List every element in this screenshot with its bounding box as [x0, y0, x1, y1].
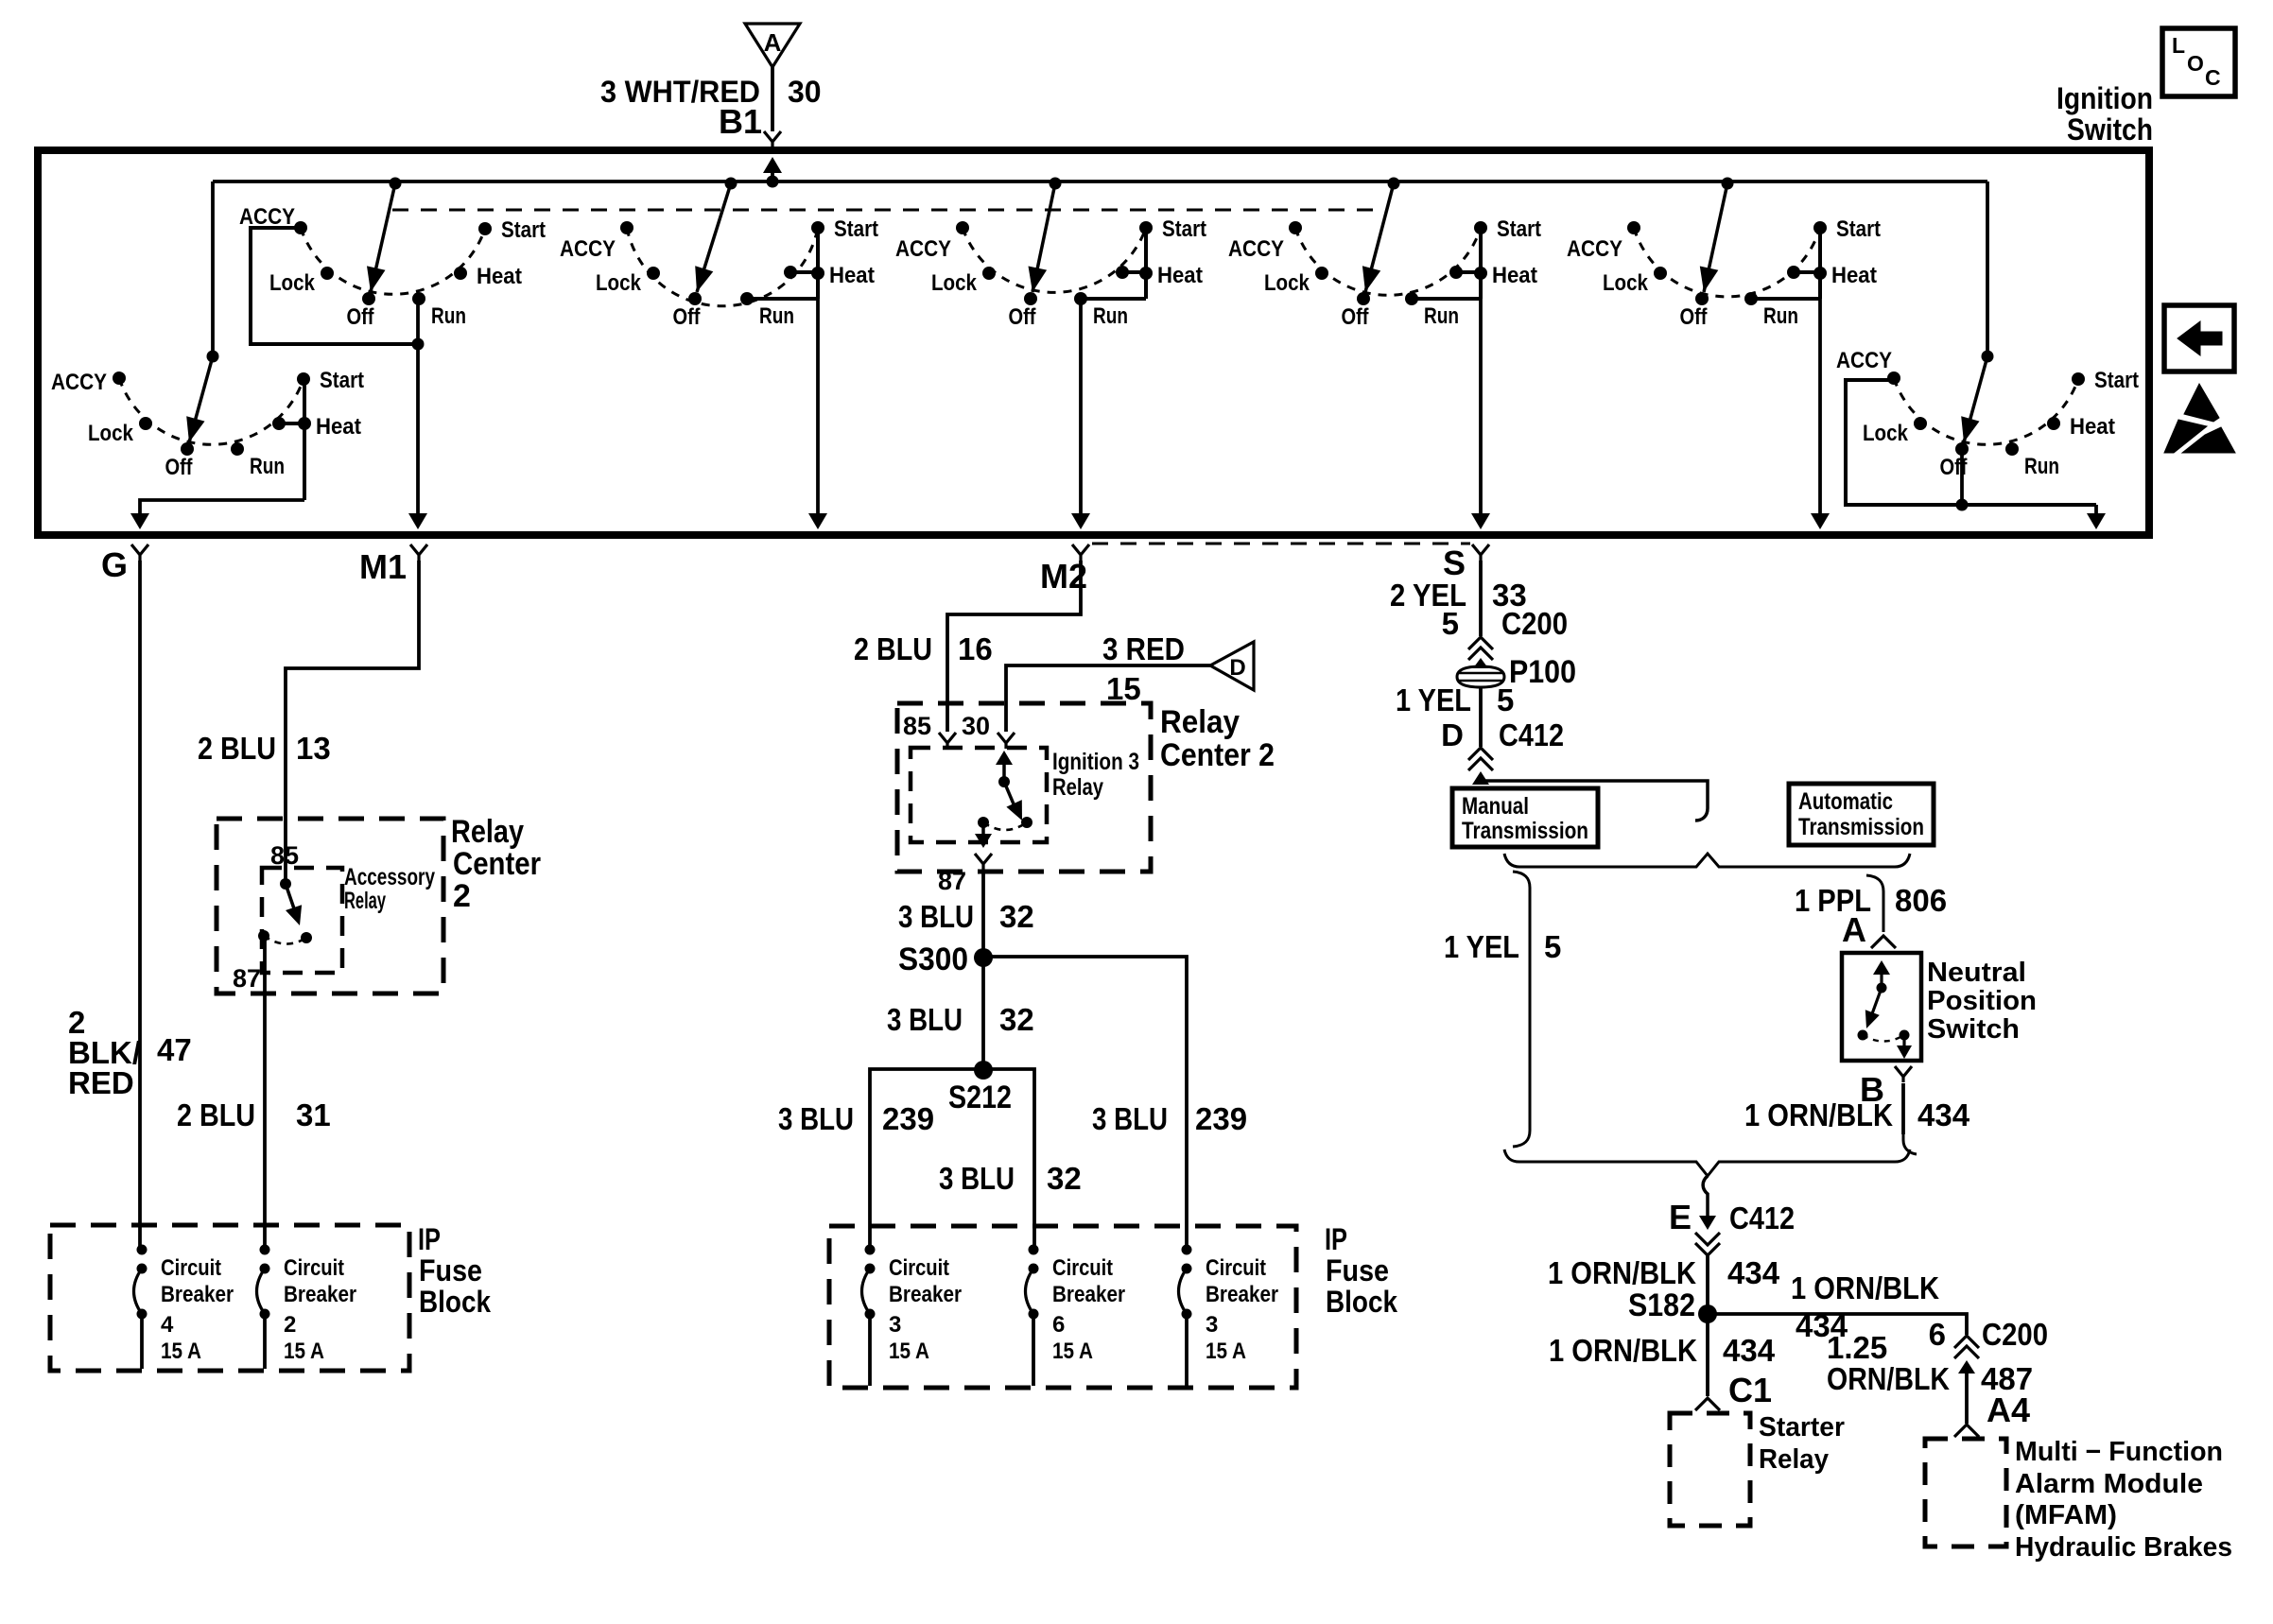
wire 1 YEL 5 from P100 to C412	[1479, 687, 1483, 747]
ignition 3 relay output contact	[978, 817, 989, 828]
svg-text:Lock: Lock	[269, 270, 316, 296]
svg-text:Heat: Heat	[1492, 263, 1537, 288]
wafer 1 Run contact wire to M1	[416, 299, 420, 517]
svg-text:ACCY: ACCY	[895, 236, 951, 262]
internal feed bus wire	[213, 180, 1987, 183]
svg-text:47: 47	[157, 1032, 192, 1067]
terminal S connector fork	[1472, 544, 1489, 561]
wire 2 BLU 13 from M1 to accessory relay	[286, 561, 419, 884]
terminal B1 connector fork	[764, 131, 781, 147]
ignition 3 relay contact throw dashed arc	[983, 822, 1027, 830]
wire arrow into C200	[1473, 658, 1488, 668]
svg-text:3 BLU: 3 BLU	[1092, 1101, 1168, 1136]
circuit breaker 3 15A (right)	[1182, 1245, 1192, 1255]
svg-text:87: 87	[938, 867, 966, 895]
svg-text:Relay: Relay	[1052, 774, 1103, 801]
svg-text:Lock: Lock	[1603, 270, 1649, 296]
wire 2 BLU 16 from M2 to ignition 3 relay 85	[947, 561, 1081, 732]
svg-text:O: O	[2187, 51, 2204, 76]
relay center 2 dashed box (accessory relay)	[217, 819, 443, 993]
svg-text:Lock: Lock	[596, 270, 642, 296]
svg-text:Relay: Relay	[451, 814, 524, 850]
connector C412 pin E	[1695, 1233, 1720, 1245]
wire 2 BLU 31 from accessory relay 87 to IP fuse block	[263, 936, 267, 1250]
svg-text:Circuit: Circuit	[1052, 1255, 1113, 1281]
svg-text:3: 3	[889, 1312, 901, 1338]
svg-text:Fuse: Fuse	[419, 1253, 482, 1287]
svg-text:Circuit: Circuit	[1206, 1255, 1266, 1281]
connector C200 pin 5	[1468, 637, 1493, 649]
svg-text:5: 5	[1544, 929, 1561, 964]
svg-text:239: 239	[882, 1101, 934, 1136]
wire 3 BLU 239 from S212 to circuit breaker 3 (left)	[870, 1069, 983, 1250]
svg-text:Block: Block	[419, 1285, 491, 1319]
svg-text:ACCY: ACCY	[239, 204, 295, 230]
svg-text:31: 31	[296, 1097, 331, 1132]
svg-text:Lock: Lock	[1863, 421, 1909, 446]
svg-text:Breaker: Breaker	[1206, 1282, 1278, 1307]
wafer 3 Run output wire to M2	[1079, 299, 1083, 517]
svg-text:Run: Run	[1763, 303, 1798, 329]
circuit breaker 4 15A	[137, 1245, 147, 1255]
svg-text:3 BLU: 3 BLU	[898, 899, 974, 934]
ESD sensitive device symbol	[2184, 384, 2219, 422]
svg-text:1 ORN/BLK: 1 ORN/BLK	[1791, 1270, 1939, 1305]
svg-text:Neutral: Neutral	[1927, 958, 2026, 988]
svg-text:6: 6	[1052, 1312, 1065, 1338]
svg-text:Run: Run	[2024, 454, 2059, 479]
svg-text:Heat: Heat	[1157, 263, 1203, 288]
ignition 3 relay output arrow to 87	[981, 822, 985, 836]
IP fuse block dashed box (left)	[50, 1225, 409, 1371]
svg-text:Heat: Heat	[316, 414, 361, 440]
neutral position switch throw dashed arc	[1863, 1035, 1904, 1042]
svg-text:B1: B1	[719, 102, 762, 141]
svg-text:15 A: 15 A	[1052, 1339, 1093, 1364]
junction dot B1 on bus	[767, 176, 779, 188]
connector C200 pin 6	[1954, 1336, 1979, 1348]
svg-text:C1: C1	[1728, 1371, 1772, 1409]
svg-text:13: 13	[296, 731, 331, 766]
terminal M1 connector fork	[410, 544, 427, 561]
svg-text:Run: Run	[759, 303, 794, 329]
wafer 2 output wire to case terminal	[816, 299, 820, 517]
svg-text:G: G	[101, 545, 128, 584]
svg-text:4: 4	[161, 1312, 174, 1338]
svg-text:15 A: 15 A	[1206, 1339, 1246, 1364]
wire 3 WHT/RED 30 from triangle A to terminal B1	[771, 67, 774, 131]
accessory relay normally-open contact	[301, 932, 312, 943]
svg-text:ACCY: ACCY	[1567, 236, 1622, 262]
svg-text:3 BLU: 3 BLU	[887, 1002, 963, 1037]
svg-text:RED: RED	[68, 1065, 134, 1100]
svg-text:Center: Center	[453, 846, 541, 882]
svg-text:Fuse: Fuse	[1326, 1253, 1389, 1287]
circuit breaker 3 15A (left)	[865, 1245, 876, 1255]
svg-text:Off: Off	[165, 455, 194, 480]
relay center 2 dashed box (ignition 3 relay)	[897, 703, 1151, 872]
svg-text:D: D	[1229, 655, 1245, 681]
svg-text:5: 5	[1442, 606, 1459, 641]
svg-text:A4: A4	[1987, 1391, 2030, 1429]
svg-text:Circuit: Circuit	[889, 1255, 949, 1281]
manual transmission wire 1 YEL 5 bracket	[1513, 872, 1530, 1147]
neutral position switch terminal B fork	[1895, 1066, 1912, 1082]
ignition switch wafer 2 contact dots	[620, 221, 633, 234]
wire from C412 to transmission option split	[1481, 781, 1708, 821]
connector triangle D to sheet location	[1210, 642, 1254, 690]
svg-text:1 ORN/BLK: 1 ORN/BLK	[1549, 1333, 1697, 1368]
svg-text:Center 2: Center 2	[1160, 737, 1275, 773]
neutral position switch armature	[1873, 960, 1890, 975]
wire arrow into C412	[1472, 771, 1489, 785]
svg-text:L: L	[2172, 33, 2185, 58]
svg-text:ACCY: ACCY	[51, 370, 107, 395]
svg-text:434: 434	[1917, 1097, 1970, 1132]
wafer 3 Start-Heat-Run tie wire	[1144, 228, 1148, 299]
svg-text:Off: Off	[1680, 304, 1709, 330]
connector triangle A to sheet location	[745, 24, 800, 67]
wafer 7 junction dot on loop	[1956, 499, 1969, 511]
svg-text:Start: Start	[501, 217, 546, 243]
svg-text:Starter: Starter	[1759, 1412, 1845, 1443]
svg-text:Accessory: Accessory	[344, 864, 435, 890]
svg-text:1 YEL: 1 YEL	[1396, 682, 1471, 717]
svg-text:Heat: Heat	[829, 263, 875, 288]
svg-text:239: 239	[1195, 1101, 1247, 1136]
ignition switch wafer 2 contact arc (dashed)	[627, 228, 818, 306]
neutral position switch output arrow	[1902, 1035, 1905, 1045]
wire 3 BLU 32 from S300 to S212	[981, 958, 985, 1070]
svg-text:Circuit: Circuit	[284, 1255, 344, 1281]
svg-text:Hydraulic Brakes: Hydraulic Brakes	[2015, 1532, 2232, 1563]
svg-text:3 RED: 3 RED	[1102, 631, 1185, 666]
splice S212	[974, 1061, 993, 1080]
svg-text:434: 434	[1723, 1333, 1776, 1368]
back arrow legend box	[2164, 305, 2234, 371]
neutral position switch contacts	[1858, 1030, 1868, 1041]
circuit breaker 2 15A	[260, 1245, 270, 1255]
svg-text:3 BLU: 3 BLU	[778, 1101, 854, 1136]
ignition switch wafer 6 contact dots	[113, 371, 126, 385]
wire 2 BLK/RED 47 from G to IP fuse block	[138, 561, 142, 1250]
svg-text:E: E	[1669, 1198, 1692, 1236]
ignition switch wafer 7 contact dots	[1887, 371, 1900, 385]
starter relay terminal C1 connector	[1695, 1398, 1720, 1410]
svg-text:Start: Start	[2094, 368, 2139, 393]
accessory relay inner dashed box	[262, 868, 342, 973]
svg-text:C: C	[2205, 65, 2221, 90]
svg-text:Off: Off	[1009, 304, 1037, 330]
svg-text:Ignition: Ignition	[2056, 81, 2153, 115]
svg-text:85: 85	[270, 841, 299, 870]
svg-text:Ignition 3: Ignition 3	[1052, 749, 1139, 775]
LOC legend box	[2162, 28, 2235, 96]
svg-text:2 BLU: 2 BLU	[177, 1097, 255, 1132]
wafer 7 Off contact wire	[1960, 449, 1964, 505]
svg-text:Run: Run	[431, 303, 466, 329]
wire B1 entry arrow into ignition switch	[763, 157, 782, 173]
accessory relay armature	[280, 878, 291, 890]
svg-text:C200: C200	[1501, 606, 1568, 641]
svg-text:1 ORN/BLK: 1 ORN/BLK	[1548, 1255, 1696, 1290]
bus right elbow wire to switch 7 wiper	[1986, 181, 1989, 356]
svg-text:2: 2	[453, 878, 471, 914]
svg-text:85: 85	[903, 712, 931, 740]
multi-function alarm module dashed box	[1925, 1439, 2006, 1546]
svg-text:Relay: Relay	[344, 888, 386, 914]
accessory relay output contact	[258, 930, 269, 942]
svg-text:5: 5	[1497, 682, 1514, 717]
svg-text:2: 2	[284, 1312, 296, 1338]
wafer 4 output wire to S	[1479, 299, 1483, 517]
wire 1 ORN/BLK 434 from S182 to C200 pin 6	[1708, 1314, 1967, 1335]
ignition switch wafer 6 contact arc (dashed)	[119, 378, 304, 444]
svg-text:S: S	[1443, 544, 1466, 582]
wafer 5 Start-Heat-Run tie wire	[1818, 228, 1822, 299]
wafer 4 Start-Heat-Run tie wire	[1479, 228, 1483, 299]
ignition 3 relay inner dashed box	[911, 748, 1047, 842]
wafer 1 wiper arrow	[390, 178, 402, 190]
splice S300	[974, 948, 993, 967]
ignition switch wafer 5 contact dots	[1627, 221, 1640, 234]
svg-text:1 ORN/BLK: 1 ORN/BLK	[1744, 1097, 1893, 1132]
svg-text:2 BLU: 2 BLU	[198, 731, 276, 766]
svg-text:S182: S182	[1628, 1287, 1695, 1323]
wafer 5 output wire to case terminal	[1818, 299, 1822, 517]
svg-text:Manual: Manual	[1462, 793, 1529, 820]
ignition 3 relay terminal 30 fork	[998, 733, 1015, 749]
wire 1.25 ORN/BLK 487 to MFAM A4	[1958, 1360, 1975, 1373]
svg-text:Position: Position	[1927, 986, 2037, 1016]
wire 1 ORN/BLK 434 from S182 to starter relay C1	[1706, 1314, 1709, 1396]
svg-text:1 YEL: 1 YEL	[1444, 929, 1519, 964]
wafer 4 wiper arrow	[1388, 178, 1400, 190]
label box Manual Transmission	[1452, 788, 1598, 847]
svg-text:Alarm Module: Alarm Module	[2015, 1469, 2203, 1499]
wire 3 BLU 239 from S300 to circuit breaker 3 (right)	[983, 957, 1187, 1250]
svg-text:Switch: Switch	[2067, 112, 2153, 147]
svg-text:C200: C200	[1982, 1317, 2048, 1352]
svg-text:32: 32	[1047, 1161, 1082, 1196]
svg-text:D: D	[1441, 717, 1464, 752]
wafer 6 output wire to G	[140, 500, 304, 517]
wire 2 YEL 33 from S to C200	[1479, 561, 1483, 636]
wafer 5 wiper arrow	[1722, 178, 1734, 190]
svg-text:Off: Off	[1342, 304, 1370, 330]
wafer 1 junction dot at M1 riser	[412, 338, 425, 351]
svg-text:Lock: Lock	[1264, 270, 1310, 296]
svg-text:Circuit: Circuit	[161, 1255, 221, 1281]
svg-text:ORN/BLK: ORN/BLK	[1827, 1361, 1950, 1396]
option split upper brace	[1504, 854, 1910, 867]
svg-text:2 BLU: 2 BLU	[854, 631, 932, 666]
accessory relay contact throw dashed arc	[264, 936, 306, 944]
svg-text:Off: Off	[673, 304, 702, 330]
svg-text:15 A: 15 A	[284, 1339, 324, 1364]
ignition 3 relay armature	[996, 751, 1013, 765]
option join lower brace	[1504, 1149, 1910, 1176]
connector C412 pin D	[1468, 748, 1493, 760]
ignition switch wafer 1 contact dots	[294, 221, 307, 234]
grommet P100	[1457, 666, 1504, 687]
svg-text:C412: C412	[1499, 717, 1564, 752]
terminal G connector fork	[131, 544, 148, 561]
ignition switch outer box	[38, 150, 2149, 535]
connector C202 dashed tie line between M2 and S	[1092, 543, 1470, 545]
svg-text:ACCY: ACCY	[1228, 236, 1284, 262]
svg-text:3: 3	[1206, 1312, 1218, 1338]
wafer 7 ACCY feed loop wire	[1846, 380, 2096, 505]
bus left elbow wire to switch 6 wiper	[211, 181, 215, 356]
svg-text:ACCY: ACCY	[1836, 348, 1892, 373]
ignition 3 relay normally-open contact	[1021, 817, 1032, 828]
svg-text:Breaker: Breaker	[161, 1282, 234, 1307]
wafer 7 loop output wire to case terminal	[2094, 505, 2098, 517]
svg-text:3 BLU: 3 BLU	[939, 1161, 1015, 1196]
svg-text:Lock: Lock	[88, 421, 134, 446]
svg-text:Transmission: Transmission	[1462, 818, 1588, 844]
wafer 1 ACCY feed loop wire	[251, 228, 418, 344]
svg-text:Breaker: Breaker	[1052, 1282, 1125, 1307]
svg-text:Lock: Lock	[931, 270, 978, 296]
svg-text:P100: P100	[1509, 654, 1576, 690]
svg-text:30: 30	[788, 75, 822, 109]
svg-text:Heat: Heat	[2070, 414, 2115, 440]
svg-text:A: A	[764, 28, 782, 57]
svg-text:6: 6	[1929, 1317, 1946, 1352]
svg-text:Start: Start	[1162, 216, 1206, 242]
svg-text:Heat: Heat	[1831, 263, 1877, 288]
circuit breaker 6 15A	[1029, 1245, 1039, 1255]
neutral position switch box	[1842, 953, 1921, 1061]
svg-text:434: 434	[1727, 1255, 1780, 1290]
svg-text:87: 87	[233, 964, 261, 993]
mechanical linkage dashed line	[392, 209, 1375, 212]
ignition 3 relay terminal 87 fork	[975, 854, 992, 870]
svg-text:Automatic: Automatic	[1798, 788, 1893, 815]
wire 3 BLU 32 from S212 to circuit breaker 6	[983, 1069, 1034, 1250]
wafer 7 wiper arrow	[1982, 351, 1994, 363]
label box Automatic Transmission	[1789, 784, 1934, 845]
svg-text:Run: Run	[1424, 303, 1459, 329]
svg-text:C412: C412	[1729, 1201, 1795, 1235]
svg-text:Start: Start	[1836, 216, 1881, 242]
ignition switch wafer 3 contact arc (dashed)	[963, 228, 1146, 292]
wire 1 ORN/BLK 434 from C412 to S182	[1706, 1255, 1709, 1314]
wire from option join to C412 E	[1703, 1176, 1708, 1218]
svg-text:Heat: Heat	[477, 264, 522, 289]
svg-text:32: 32	[999, 1002, 1034, 1037]
svg-text:Switch: Switch	[1927, 1014, 2020, 1045]
terminal M2 connector fork	[1072, 544, 1089, 561]
ignition switch wafer 4 contact dots	[1289, 221, 1302, 234]
svg-text:Run: Run	[250, 454, 285, 479]
ignition switch wafer 7 contact arc (dashed)	[1894, 378, 2078, 444]
wire 3 BLU 32 from relay 87 to S300	[981, 870, 985, 958]
svg-text:806: 806	[1895, 883, 1947, 918]
wire 1 ORN/BLK 434 from NPS B to option join	[1901, 1083, 1905, 1134]
svg-text:Multi − Function: Multi − Function	[2015, 1437, 2223, 1467]
svg-text:Block: Block	[1326, 1285, 1397, 1319]
svg-text:Start: Start	[1497, 216, 1541, 242]
svg-text:Relay: Relay	[1759, 1444, 1829, 1475]
MFAM terminal A4 connector	[1954, 1425, 1979, 1437]
svg-text:(MFAM): (MFAM)	[2015, 1500, 2117, 1530]
wire 3 RED 15 from triangle D to ignition 3 relay 30	[1006, 665, 1210, 732]
svg-text:IP: IP	[418, 1222, 441, 1256]
ignition switch wafer 1 contact arc (dashed)	[301, 228, 485, 294]
starter relay dashed box	[1670, 1413, 1750, 1526]
wafer 6 wiper arrow	[207, 351, 219, 363]
ignition switch wafer 5 contact arc (dashed)	[1634, 228, 1820, 297]
ignition switch wafer 3 contact dots	[956, 221, 969, 234]
svg-text:IP: IP	[1325, 1222, 1347, 1256]
IP fuse block dashed box (center)	[829, 1226, 1296, 1388]
svg-text:Relay: Relay	[1160, 704, 1240, 740]
ignition 3 relay terminal 85 fork	[939, 733, 956, 749]
svg-text:S300: S300	[898, 942, 968, 977]
svg-text:15: 15	[1106, 671, 1141, 706]
svg-text:Breaker: Breaker	[889, 1282, 962, 1307]
svg-text:A: A	[1842, 910, 1866, 949]
svg-text:Off: Off	[347, 304, 375, 330]
svg-text:Breaker: Breaker	[284, 1282, 356, 1307]
wafer 2 wiper arrow	[725, 178, 737, 190]
svg-text:Start: Start	[834, 216, 878, 242]
automatic transmission wire 1 PPL 806 bracket	[1866, 875, 1883, 932]
svg-text:M1: M1	[359, 547, 407, 586]
svg-text:1.25: 1.25	[1827, 1330, 1887, 1365]
svg-text:Transmission: Transmission	[1798, 814, 1924, 840]
svg-text:Start: Start	[320, 368, 364, 393]
svg-text:S212: S212	[948, 1080, 1012, 1115]
svg-text:ACCY: ACCY	[560, 236, 616, 262]
splice S182	[1698, 1304, 1717, 1323]
svg-text:Run: Run	[1093, 303, 1128, 329]
ignition switch wafer 4 contact arc (dashed)	[1295, 228, 1481, 295]
wafer 3 wiper arrow	[1050, 178, 1062, 190]
svg-text:30: 30	[962, 712, 990, 740]
wafer 6 Start-Heat tie wire	[303, 378, 306, 500]
svg-text:15 A: 15 A	[161, 1339, 201, 1364]
svg-text:15 A: 15 A	[889, 1339, 929, 1364]
svg-text:16: 16	[958, 631, 993, 666]
wafer 2 Start-Heat-Run tie wire	[816, 228, 820, 299]
svg-text:32: 32	[999, 899, 1034, 934]
